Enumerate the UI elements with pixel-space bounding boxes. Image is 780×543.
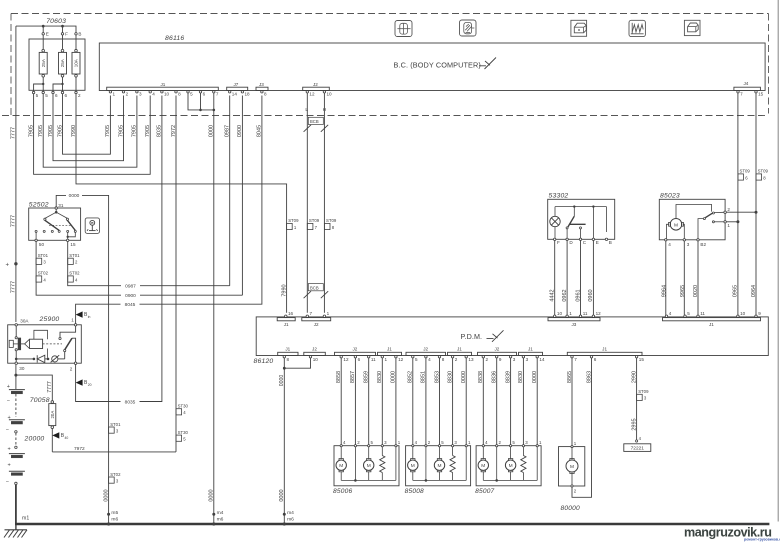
svg-text:10: 10 [164, 92, 170, 97]
svg-text:+: + [8, 415, 11, 421]
wire 0987 (pin 15 to BC J7 pin 14) [68, 242, 230, 286]
relay pin 1 [74, 324, 76, 326]
svg-text:40: 40 [65, 436, 69, 440]
svg-text:7972: 7972 [171, 125, 177, 137]
internal ground bus of 85008 [425, 447, 427, 481]
lamp symbol [550, 216, 560, 226]
pins 2 and 1 [724, 211, 726, 213]
svg-text:9: 9 [499, 357, 502, 362]
icon cab 2 [684, 20, 700, 35]
svg-text:1: 1 [71, 318, 74, 323]
svg-text:M: M [509, 463, 513, 469]
pin 31 [55, 207, 57, 209]
svg-text:10: 10 [740, 311, 746, 316]
svg-text:M: M [674, 222, 678, 228]
resistor of 85007 [522, 447, 524, 456]
relay 25900 box [8, 325, 82, 363]
terminal E [42, 28, 44, 51]
svg-text:J1: J1 [528, 347, 533, 352]
battery 20000 [15, 365, 17, 389]
wire 0961 [580, 241, 582, 316]
heater module 85008 box [406, 446, 471, 486]
node fuse feed 1 [42, 25, 45, 28]
wires to 85006 [340, 358, 342, 445]
85006 pin 2 [354, 445, 356, 447]
svg-text:8: 8 [178, 92, 181, 97]
85023 internal wiring [676, 205, 712, 219]
svg-text:8851: 8851 [421, 371, 427, 383]
svg-text:1: 1 [113, 92, 116, 97]
svg-text:J1: J1 [602, 347, 607, 352]
svg-text:7905: 7905 [28, 125, 34, 137]
svg-text:−: − [6, 428, 9, 434]
85007 pin 5 [510, 445, 512, 447]
svg-text:1: 1 [327, 311, 330, 316]
svg-text:15: 15 [758, 92, 764, 97]
relay mechanical link (dashed) [43, 343, 62, 345]
PDM bottom connector J2 [304, 352, 326, 355]
relay diode branch [16, 358, 34, 360]
svg-text:J1: J1 [457, 347, 462, 352]
wire 7905 (fuse pin 6a to BC pin 2) [53, 94, 124, 161]
PDM bottom connector J1 [278, 352, 298, 355]
svg-text:8045: 8045 [257, 125, 263, 137]
svg-text:+: + [8, 463, 11, 469]
svg-text:J4: J4 [744, 81, 749, 86]
svg-text:ST09: ST09 [638, 389, 649, 394]
svg-text:10A: 10A [74, 58, 79, 67]
wire 0964 (BC J4 pin 15 to PDM J1 pin 9) [755, 93, 757, 315]
relay pin 2 [74, 362, 76, 364]
svg-text:8836: 8836 [492, 371, 498, 383]
svg-text:9965: 9965 [680, 285, 686, 297]
wire 4442 [554, 241, 556, 316]
svg-text:ST09: ST09 [309, 218, 320, 223]
PDM top connector J1 [277, 318, 295, 321]
svg-text:0965: 0965 [733, 285, 739, 297]
resistor of 85006 [381, 447, 383, 456]
svg-text:5: 5 [45, 93, 48, 98]
svg-text:ST30: ST30 [178, 404, 189, 409]
terminal F [62, 28, 64, 51]
wire from pin 1 to 0965 [726, 221, 738, 223]
svg-text:72221: 72221 [631, 446, 645, 452]
svg-text:12: 12 [398, 357, 404, 362]
svg-text:M: M [438, 463, 442, 469]
svg-text:85007: 85007 [475, 488, 494, 495]
svg-text:8859: 8859 [364, 371, 370, 383]
svg-text:4: 4 [428, 357, 431, 362]
85007 pin 3 [522, 445, 524, 447]
svg-text:ST09: ST09 [288, 218, 299, 223]
svg-text:5: 5 [36, 93, 39, 98]
relay pin 30A [15, 324, 17, 326]
svg-text:15: 15 [70, 242, 76, 247]
wire 7777 battery positive [15, 26, 17, 322]
svg-text:B: B [609, 240, 612, 245]
svg-text:3: 3 [139, 92, 142, 97]
svg-text:0987: 0987 [125, 284, 136, 290]
svg-text:2: 2 [727, 207, 730, 212]
svg-text:6: 6 [203, 92, 206, 97]
svg-text:11: 11 [583, 311, 588, 316]
svg-text:m4: m4 [217, 510, 224, 516]
node fuse feed 2 [61, 25, 64, 28]
wire 8045 (BC J3 pin 8 to relay pin 1) [76, 96, 262, 324]
svg-text:1: 1 [727, 223, 730, 228]
svg-text:7905: 7905 [48, 125, 54, 137]
node m5 [107, 513, 110, 516]
svg-text:8035: 8035 [125, 399, 136, 405]
svg-text:+: + [6, 263, 10, 269]
svg-text:m6: m6 [111, 517, 118, 523]
svg-text:1: 1 [569, 311, 572, 316]
svg-text:0964: 0964 [751, 285, 757, 297]
svg-text:70603: 70603 [46, 18, 66, 25]
svg-text:0960: 0960 [588, 289, 594, 301]
85008 pin 1 [465, 445, 467, 447]
svg-text:7990: 7990 [281, 284, 287, 296]
svg-text:8830: 8830 [518, 371, 524, 383]
wire 8035 (BC J1 pin 10 to relay pin 2) [76, 96, 162, 402]
svg-text:0000: 0000 [391, 371, 397, 383]
svg-text:70058: 70058 [30, 397, 50, 404]
svg-text:M: M [481, 463, 485, 469]
85008 pin 3 [452, 445, 454, 447]
svg-text:J2: J2 [314, 322, 319, 327]
wire 0965 (BC J4 pin 7 to PDM J1 pin 10) [737, 93, 739, 315]
wire 8863 (motor 80000 pin 2 to PDM J1 pin 6) [572, 358, 592, 497]
internal switch [573, 207, 575, 217]
svg-text:ST09: ST09 [758, 169, 769, 174]
85006 pin 4 [340, 445, 342, 447]
svg-text:M: M [411, 463, 415, 469]
wire battery feed to fuses [16, 26, 76, 33]
motor 80000 pin 1 [571, 446, 573, 448]
svg-text:J1: J1 [285, 347, 290, 352]
fuse 70058 20A [51, 401, 54, 404]
motor 85023 [670, 219, 682, 231]
fuse box pins 5 5 6 6 2 [32, 91, 34, 93]
svg-text:12: 12 [309, 92, 315, 97]
wire 8865 (PDM J1 pin 7 to motor 80000) [571, 358, 573, 446]
motor 2 of 85006 [368, 447, 370, 459]
PDM top connector J1 [663, 318, 761, 321]
svg-text:8838: 8838 [478, 371, 484, 383]
motor 2 of 85007 [510, 447, 512, 459]
motor 80000 pin 2 [571, 485, 573, 487]
svg-text:8853: 8853 [434, 371, 440, 383]
wire 7905 (fuse pin 6b to BC pin 1) [63, 94, 111, 155]
svg-text:7972: 7972 [74, 446, 85, 452]
svg-text:8: 8 [442, 357, 445, 362]
svg-text:12: 12 [343, 357, 349, 362]
svg-text:85006: 85006 [333, 488, 352, 495]
svg-text:25900: 25900 [39, 316, 60, 323]
svg-text:J2: J2 [495, 347, 500, 352]
svg-text:18: 18 [245, 92, 251, 97]
svg-text:53302: 53302 [549, 192, 569, 199]
PDM bottom connector J2 [335, 352, 376, 355]
wire 0900 (pin 50 to BC J7 pin 18) [36, 242, 242, 296]
page border right [777, 0, 779, 522]
svg-text:ST01: ST01 [69, 253, 80, 258]
PDM bottom connector J1 [378, 352, 402, 355]
svg-text:6: 6 [65, 93, 68, 98]
svg-text:4: 4 [669, 311, 672, 316]
PDM bottom connector J1 [448, 352, 472, 355]
svg-text:0000: 0000 [279, 489, 285, 501]
marker B_40 [51, 428, 53, 452]
svg-text:8830: 8830 [447, 371, 453, 383]
svg-text:2: 2 [486, 357, 489, 362]
svg-text:0987: 0987 [225, 125, 231, 137]
svg-text:M: M [339, 463, 343, 469]
svg-text:m5: m5 [111, 510, 118, 516]
svg-text:5: 5 [415, 357, 418, 362]
svg-text:6: 6 [358, 357, 361, 362]
relay coil [15, 326, 17, 337]
svg-text:13: 13 [468, 357, 474, 362]
wire 7972 (fuse 70058 to BC J1 pin 8) [52, 451, 176, 453]
svg-text:6: 6 [55, 93, 58, 98]
85008 pin 2 [425, 445, 427, 447]
svg-text:52502: 52502 [29, 201, 49, 208]
svg-text:8865: 8865 [567, 371, 573, 383]
svg-text:ST01: ST01 [38, 253, 49, 258]
svg-text:7777: 7777 [47, 381, 53, 393]
svg-text:m6: m6 [287, 517, 294, 523]
pins 4 3 B2 [665, 239, 667, 241]
svg-text:P.D.M.: P.D.M. [461, 332, 483, 341]
body computer box [99, 43, 765, 91]
svg-text:ST30: ST30 [178, 430, 189, 435]
relay pin 30 [15, 362, 17, 364]
svg-text:M: M [570, 464, 574, 470]
wire 0000 (pin 31 down to ground m5) [56, 195, 108, 523]
svg-text:5: 5 [687, 311, 690, 316]
svg-text:7905: 7905 [57, 125, 63, 137]
svg-text:7777: 7777 [11, 215, 17, 227]
svg-text:8858: 8858 [336, 371, 342, 383]
switch unit 53302 box [548, 199, 615, 239]
svg-text:80000: 80000 [561, 505, 580, 512]
svg-text:0000: 0000 [461, 371, 467, 383]
svg-text:7990: 7990 [71, 125, 77, 137]
node m4 (PDM ground) [283, 513, 286, 516]
pin 15 [67, 239, 69, 241]
svg-text:20: 20 [88, 383, 92, 387]
svg-text:BCB: BCB [310, 285, 319, 290]
motor 2 of 85008 [439, 447, 441, 459]
85008 pin 4 [412, 445, 414, 447]
svg-text:15: 15 [639, 357, 645, 362]
svg-text:E: E [596, 240, 599, 245]
svg-text:25A: 25A [60, 58, 65, 67]
heater module 85006 box [334, 446, 399, 486]
svg-text:7: 7 [310, 311, 313, 316]
svg-text:8852: 8852 [408, 371, 414, 383]
pins F D C E B [554, 238, 556, 240]
fuse F2 25A [61, 49, 64, 52]
svg-text:6: 6 [594, 357, 597, 362]
wire from pin 2 to 0964 [726, 211, 756, 213]
85008 pin 5 [438, 445, 440, 447]
svg-text:ремонт-грузовиков.com.ru: ремонт-грузовиков.com.ru [744, 538, 780, 542]
svg-text:9: 9 [758, 311, 761, 316]
PDM bottom connector J1 [519, 352, 543, 355]
internal ground bus of 85007 [496, 447, 498, 481]
motor 80000 box [559, 447, 585, 486]
svg-text:J1: J1 [387, 347, 392, 352]
wire 2990 (PDM J1 pin 15 to 72221) [636, 358, 638, 440]
85007 pin 4 [482, 445, 484, 447]
svg-text:F: F [65, 31, 68, 36]
svg-text:J3: J3 [572, 322, 577, 327]
branch to fuse 70058 [16, 375, 52, 401]
wire 0962 [566, 241, 568, 316]
svg-text:10: 10 [313, 357, 319, 362]
svg-text:J7: J7 [234, 82, 239, 87]
motor 1 of 85006 [340, 447, 342, 459]
svg-text:ST02: ST02 [110, 472, 121, 477]
svg-text:20000: 20000 [24, 436, 45, 443]
pin 50 [35, 239, 37, 241]
svg-text:7905: 7905 [132, 125, 138, 137]
svg-text:B.C. (BODY COMPUTER): B.C. (BODY COMPUTER) [394, 60, 481, 69]
svg-text:m1: m1 [22, 516, 29, 522]
svg-text:0000: 0000 [279, 375, 285, 387]
svg-text:8: 8 [287, 357, 290, 362]
svg-text:1: 1 [385, 357, 388, 362]
svg-text:8830: 8830 [377, 371, 383, 383]
PDM top connector J2 [302, 318, 331, 321]
svg-text:11: 11 [700, 311, 705, 316]
svg-text:8035: 8035 [157, 125, 163, 137]
wire 9965 [683, 241, 685, 315]
svg-text:0000: 0000 [103, 489, 109, 501]
svg-text:+: + [8, 446, 11, 452]
wire 7905 (fuse pin 5b to BC pin 3) [43, 94, 137, 168]
wire 0020 [697, 241, 699, 315]
svg-text:30A: 30A [20, 319, 29, 324]
wires to 85007 [482, 358, 484, 445]
85006 pin 1 [395, 445, 397, 447]
svg-text:0962: 0962 [562, 289, 568, 301]
wire 0000 (PDM J1 pin 8 to ground m4) [283, 358, 285, 523]
svg-text:7777: 7777 [11, 281, 17, 293]
marker B_in [76, 311, 83, 317]
svg-text:8857: 8857 [350, 371, 356, 383]
svg-text:85008: 85008 [405, 488, 424, 495]
heater module 85007 box [476, 446, 541, 486]
svg-text:14: 14 [232, 92, 238, 97]
wire 0960 [592, 241, 594, 316]
svg-text:9964: 9964 [661, 285, 667, 297]
fuse outputs to pins [42, 77, 44, 91]
icon waveform [629, 20, 645, 36]
motor 1 of 85008 [412, 447, 414, 459]
svg-text:50: 50 [39, 242, 45, 247]
node m4 [212, 513, 215, 516]
svg-text:86116: 86116 [165, 35, 184, 42]
svg-text:7: 7 [740, 92, 743, 97]
svg-text:7: 7 [574, 357, 577, 362]
svg-text:J1: J1 [284, 322, 289, 327]
svg-text:31: 31 [58, 203, 64, 208]
svg-text:2: 2 [126, 92, 129, 97]
svg-text:F: F [557, 240, 560, 245]
svg-text:B2: B2 [700, 242, 706, 247]
BCB twisted pair symbol top [308, 117, 323, 124]
svg-text:8863: 8863 [586, 371, 592, 383]
PDM bottom connector J2 [478, 352, 517, 355]
PDM top connector J3 [548, 318, 600, 321]
svg-text:J3: J3 [259, 82, 264, 87]
PDM bottom connector J1 [567, 352, 642, 355]
svg-text:2: 2 [78, 93, 81, 98]
ignition switch contacts [55, 211, 58, 214]
internal ground bus of 85006 [354, 447, 356, 481]
svg-text:8: 8 [264, 92, 267, 97]
wire 7990 (fuse pin 2 to PDM J1 pin 16) [76, 94, 287, 313]
svg-text:0000: 0000 [532, 371, 538, 383]
svg-text:0961: 0961 [575, 289, 581, 301]
svg-text:3: 3 [513, 357, 516, 362]
85007 pin 2 [496, 445, 498, 447]
motor 80000 [571, 448, 573, 460]
wire 9964 [665, 241, 667, 315]
sensor 72221 [636, 440, 638, 442]
svg-text:m4: m4 [287, 510, 294, 516]
svg-text:7905: 7905 [38, 125, 44, 137]
ground symbol m1 [15, 525, 17, 530]
unit 85023 box [659, 199, 725, 240]
svg-text:J1: J1 [161, 82, 166, 87]
PDM box [256, 317, 768, 356]
svg-text:11: 11 [371, 357, 376, 362]
svg-text:7905: 7905 [118, 125, 124, 137]
svg-text:2995: 2995 [631, 418, 637, 430]
svg-text:30: 30 [19, 366, 25, 371]
85007 pin 1 [536, 445, 538, 447]
wire merge BC pins 5 6 7 [188, 93, 214, 110]
svg-text:J1: J1 [709, 322, 714, 327]
motor 1 of 85007 [482, 447, 484, 459]
BCB twisted pair symbol bottom [308, 284, 323, 291]
svg-text:14: 14 [539, 357, 545, 362]
svg-text:E: E [46, 31, 49, 36]
svg-text:0000: 0000 [69, 193, 80, 199]
wire battery negative to ground m1 [15, 485, 17, 524]
BC pins [109, 91, 111, 93]
relay switch [60, 326, 76, 337]
internal bus [554, 207, 556, 217]
fuse F3 10A [75, 49, 78, 52]
icon cab 1 [571, 20, 587, 36]
svg-text:20A: 20A [50, 411, 55, 419]
icon seat adjust [395, 21, 412, 37]
key icon [85, 218, 99, 234]
svg-text:7777: 7777 [11, 127, 17, 139]
symbol after title [479, 58, 496, 70]
svg-text:0020: 0020 [693, 285, 699, 297]
svg-text:10: 10 [327, 92, 333, 97]
svg-text:2: 2 [70, 366, 73, 371]
svg-text:16: 16 [288, 311, 294, 316]
resistor of 85008 [452, 447, 454, 456]
svg-text:ST09: ST09 [740, 169, 751, 174]
